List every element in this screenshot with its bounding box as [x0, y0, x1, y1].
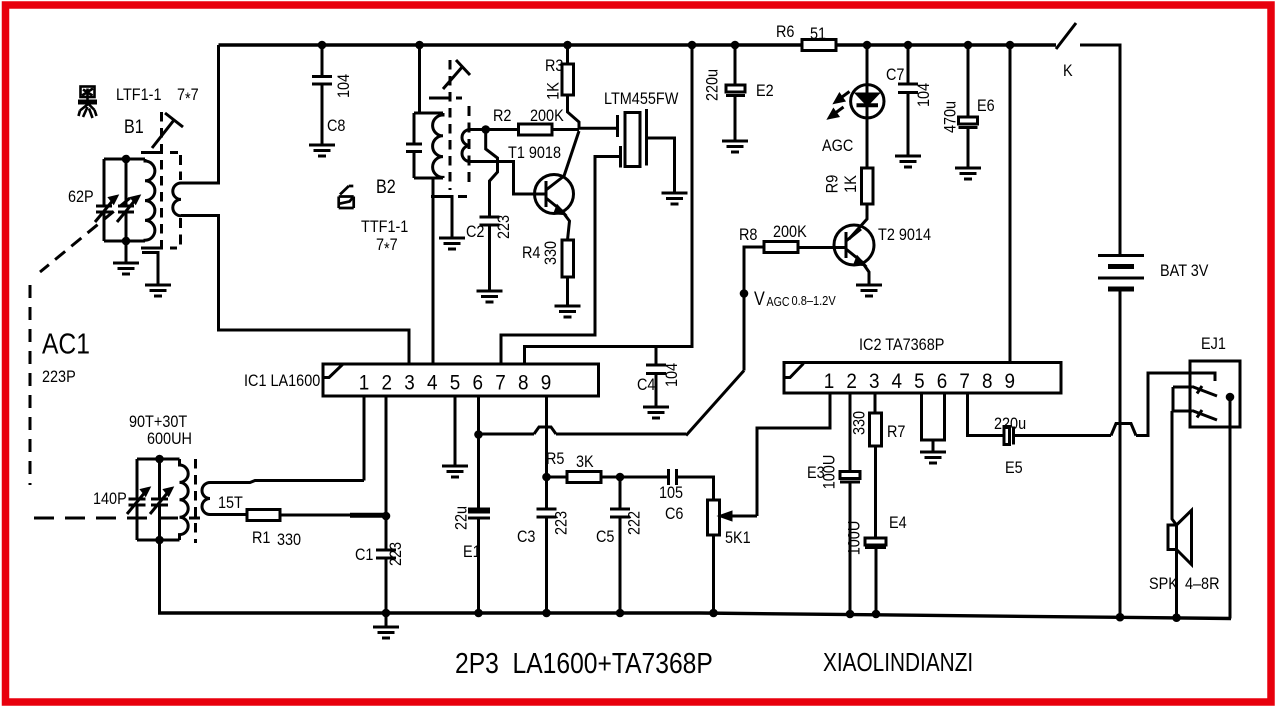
svg-text:5: 5 [450, 372, 461, 395]
node B1 tank top [122, 155, 131, 164]
svg-text:AC1: AC1 [42, 328, 90, 360]
ground C2 [477, 291, 503, 302]
wire B2 bottom to IC1 pin4 [432, 178, 435, 364]
transistor T2 9014 [834, 225, 874, 265]
svg-text:C4: C4 [637, 376, 656, 394]
svg-text:223: 223 [552, 511, 570, 535]
svg-text:200K: 200K [773, 223, 807, 241]
ground T2 emitter [856, 285, 882, 296]
svg-text:9: 9 [1005, 370, 1016, 393]
svg-text:C6: C6 [665, 505, 684, 523]
node B1 tank bottom [122, 237, 131, 246]
inductor B2 primary [433, 113, 443, 178]
wire B1 tank top [104, 158, 145, 161]
svg-text:7*7: 7*7 [177, 86, 199, 108]
svg-text:1: 1 [359, 372, 370, 395]
wire IC1 pin9 down [545, 396, 548, 477]
capacitor E2 220u [734, 45, 737, 85]
svg-text:470u: 470u [941, 101, 959, 133]
node 140P tank top [155, 455, 164, 464]
node E4 rail [872, 610, 881, 619]
svg-text:T1 9018: T1 9018 [508, 144, 561, 162]
svg-text:AGC: AGC [822, 137, 853, 155]
node rail/LED [863, 41, 872, 50]
node C3 rail [542, 609, 551, 618]
svg-text:223P: 223P [42, 368, 76, 386]
svg-text:22u: 22u [452, 506, 470, 530]
node rail/E6 [964, 41, 973, 50]
svg-text:2: 2 [381, 372, 392, 395]
wire R3 bottom to collector node [568, 95, 580, 130]
wire B1 secondary top to rail [181, 45, 219, 183]
svg-text:C3: C3 [517, 528, 536, 546]
svg-text:E1: E1 [463, 543, 481, 561]
wire E5 to jack with hop [1014, 373, 1216, 436]
svg-text:B2: B2 [376, 176, 396, 198]
svg-text:AGC: AGC [767, 295, 790, 309]
wire tank bottom to rail [158, 540, 161, 613]
svg-text:0.8–1.2V: 0.8–1.2V [792, 293, 836, 308]
node B2/R2/C2 [481, 125, 490, 134]
5K1 wiper arrow [729, 515, 757, 518]
wire node zigzag down to C2 [486, 130, 498, 218]
battery BAT 3V [1098, 254, 1144, 257]
capacitor C4 104 [646, 347, 666, 408]
ceramic filter LTM455FW [616, 115, 619, 137]
EJ1 lower contact [1192, 410, 1217, 420]
ground E6 [955, 168, 981, 179]
svg-text:R1: R1 [252, 529, 270, 547]
svg-text:B1: B1 [124, 116, 144, 138]
resistor R7 330 [870, 413, 882, 446]
ground B2 shield [439, 238, 465, 249]
wire wiper to IC2 pin1 [757, 393, 830, 516]
svg-text:4–8R: 4–8R [1185, 575, 1220, 593]
LED AGC indicator [866, 45, 869, 94]
svg-text:200K: 200K [530, 107, 564, 125]
capacitor E5 220u [1004, 427, 1010, 445]
wire R8 left to VAGC node [744, 247, 764, 371]
svg-text:1K: 1K [842, 175, 860, 193]
IC U2 TA7368P body [784, 363, 1061, 394]
svg-text:104: 104 [663, 363, 681, 387]
svg-text:5: 5 [914, 370, 925, 393]
wire T1 emitter to R4 [562, 211, 570, 240]
AC1 dashed boundary horizontal [34, 517, 200, 520]
svg-text:15T: 15T [218, 494, 243, 512]
ground B1 tank [113, 263, 139, 274]
B2 shield ground lead [433, 197, 452, 239]
svg-text:C1: C1 [355, 546, 373, 564]
capacitor C6 105 [620, 469, 714, 500]
wire B2 secondary top to R2 node [470, 128, 519, 131]
ground R4 [555, 306, 581, 317]
capacitor E4 100U [865, 538, 886, 545]
svg-text:IC1 LA1600: IC1 LA1600 [244, 372, 320, 390]
wire LTM output to IC1 pin7 [501, 157, 621, 365]
svg-text:R2: R2 [493, 107, 511, 125]
svg-text:R3: R3 [545, 57, 564, 75]
wire IC2 pin2 down [849, 393, 852, 472]
svg-text:62P: 62P [68, 188, 94, 206]
wire 15T bottom to R1 [210, 513, 247, 516]
capacitor E1 22u [477, 435, 480, 509]
IC1 pin numbers [359, 372, 552, 395]
svg-text:C7: C7 [886, 66, 904, 84]
wire speaker to rail [1175, 550, 1178, 618]
svg-text:2: 2 [846, 370, 857, 393]
svg-text:TTF1-1: TTF1-1 [361, 218, 408, 236]
wire B2 tank top [414, 112, 443, 115]
wire B2 secondary bottom to T1 base [470, 162, 546, 195]
wire VAGC diagonal to AGC line [686, 371, 744, 436]
B2 shield dashed [429, 97, 462, 100]
svg-text:E2: E2 [756, 82, 774, 100]
inductor 15T [202, 483, 210, 515]
wire LTM ground electrode [647, 138, 675, 193]
svg-text:1K: 1K [544, 82, 562, 100]
ground C8 [309, 145, 335, 156]
svg-text:R9: R9 [823, 175, 841, 194]
node C5 rail [616, 609, 625, 618]
capacitor C8 [312, 45, 332, 145]
svg-text:E6: E6 [977, 97, 995, 115]
svg-text:4: 4 [427, 372, 438, 395]
svg-text:223: 223 [387, 542, 405, 566]
IC1 pin1 tab mark [323, 365, 343, 378]
wire B1 secondary bottom to IC1 pin3 [181, 216, 409, 365]
resistor R4 330 [562, 240, 574, 277]
node VAGC [740, 289, 749, 298]
svg-text:7*7: 7*7 [376, 236, 398, 258]
svg-text:E5: E5 [1005, 459, 1023, 477]
node rail/C7 [904, 41, 913, 50]
svg-text:8: 8 [518, 372, 529, 395]
capacitor C7 104 [898, 45, 918, 156]
svg-text:C2: C2 [466, 223, 484, 241]
wire R7 to E4 [874, 446, 877, 538]
svg-text:7: 7 [959, 370, 970, 393]
node battery rail [1116, 613, 1125, 622]
svg-text:600UH: 600UH [147, 430, 192, 448]
variable capacitor 62P section b [118, 159, 134, 241]
resistor R8 200K [764, 242, 798, 253]
switch K [1056, 23, 1076, 49]
wire T2 emitter to ground [862, 262, 869, 285]
ground IC1 pin5 [442, 466, 468, 477]
svg-text:222: 222 [625, 511, 643, 535]
svg-text:E4: E4 [889, 514, 907, 532]
inductor B1 primary [145, 159, 155, 241]
ground C4 [643, 407, 669, 418]
svg-text:3: 3 [404, 372, 415, 395]
wire IC1 pin2 down to C1 node [385, 396, 388, 516]
earphone jack EJ1 body [1190, 361, 1240, 427]
node pin9/R5/C3 [542, 473, 551, 482]
variable capacitor 62P section a [96, 159, 112, 241]
wire rail to IC2 pin9 [1009, 45, 1012, 363]
resistor R5 3K [547, 476, 568, 479]
svg-text:2P3 LA1600+TA7368P: 2P3 LA1600+TA7368P [455, 647, 713, 679]
svg-text:XIAOLINDIANZI: XIAOLINDIANZI [823, 648, 973, 677]
svg-text:R7: R7 [887, 423, 905, 441]
potentiometer 5K1 [708, 500, 720, 535]
AC1 dashed boundary diagonal [40, 198, 130, 272]
svg-text:100U: 100U [845, 521, 863, 556]
B1 shield dashed [141, 151, 178, 154]
svg-text:220u: 220u [994, 415, 1026, 433]
ground C7 [895, 156, 921, 167]
svg-text:3: 3 [869, 370, 880, 393]
capacitor C3 223 [537, 477, 557, 613]
svg-text:6: 6 [937, 370, 948, 393]
wire IC1 pin8 rail drop [525, 45, 693, 364]
svg-text:R4: R4 [522, 244, 541, 262]
wire 140P tank bottom [137, 539, 180, 542]
svg-text:IC2 TA7368P: IC2 TA7368P [859, 336, 944, 354]
svg-text:90T+30T: 90T+30T [129, 413, 188, 431]
node E3 rail [846, 610, 855, 619]
LED arrows [840, 92, 850, 99]
svg-text:104: 104 [915, 83, 933, 107]
600UH core dashed [194, 459, 197, 543]
node C1 rail [382, 609, 391, 618]
svg-text:220u: 220u [703, 69, 721, 101]
svg-text:R8: R8 [739, 226, 758, 244]
B2 tuning slug arrow [443, 60, 470, 89]
node EJ1 sleeve [1226, 393, 1235, 402]
capacitor B2 tank [406, 113, 422, 178]
svg-text:330: 330 [542, 241, 560, 265]
svg-text:9: 9 [541, 372, 552, 395]
IC2 pin1 tab mark [784, 364, 804, 378]
node 140P tank bottom [155, 536, 164, 545]
svg-text:C5: C5 [596, 528, 615, 546]
wire top power rail left [219, 43, 803, 46]
B1 shield ground lead [142, 253, 158, 286]
svg-text:3K: 3K [576, 453, 594, 471]
wire B1 tank to ground [125, 241, 128, 263]
wire 140P tank top [137, 458, 180, 461]
wire IC1 pin5 to ground [454, 396, 457, 466]
node rail/IC1 pin8 [688, 41, 697, 50]
svg-text:1: 1 [824, 370, 835, 393]
svg-text:223: 223 [495, 215, 513, 239]
speaker SPK 4-8R [1168, 525, 1177, 550]
capacitor C2 223 [480, 217, 500, 291]
wire R1 to C1 node [280, 514, 350, 517]
wire jack to speaker [1172, 411, 1177, 525]
svg-text:SPK: SPK [1149, 575, 1178, 593]
svg-text:R6: R6 [776, 23, 795, 41]
wire node to LTM input [579, 127, 618, 130]
B1 core dashed [160, 112, 163, 250]
ground E2 [722, 141, 748, 152]
capacitor C1 223 [376, 516, 396, 613]
resistor R1 330 [247, 510, 280, 521]
resistor R9 1K [862, 168, 874, 204]
small character glyph near B2 [339, 186, 354, 208]
transistor T1 9018 [535, 175, 574, 214]
wire top rail right of R6 [836, 43, 1056, 46]
svg-text:LTF1-1: LTF1-1 [116, 86, 161, 104]
wire R2 right to node [552, 128, 579, 131]
wire R9 to T2 collector [849, 204, 867, 239]
EJ1 upper contact [1192, 386, 1217, 396]
node pin6/E1/AGC [474, 430, 483, 439]
wire B1 tank bottom [104, 240, 145, 243]
wire node to T1 collector [564, 131, 579, 176]
svg-text:51: 51 [810, 25, 826, 43]
capacitor C5 222 [610, 477, 630, 613]
ground B1 shield [145, 285, 171, 296]
svg-text:BAT 3V: BAT 3V [1160, 262, 1209, 280]
wire bottom ground rail [158, 613, 1231, 619]
ground LTM [662, 193, 688, 204]
svg-text:100U: 100U [820, 455, 838, 490]
antenna glyph (stylized character) [78, 87, 97, 119]
AC1 dashed boundary vertical [29, 285, 32, 485]
wire T2 base lead [798, 246, 846, 249]
svg-text:R5: R5 [546, 450, 565, 468]
node R1/C1/pin2 [382, 512, 391, 521]
node R5/C5/C6 [616, 473, 625, 482]
wire IC2 pin7 down [968, 393, 1005, 436]
ground IC2 pins5,6 [920, 452, 946, 463]
wire IC2 pin3 down [874, 393, 877, 413]
wire IC2 pins5,6 to ground [922, 393, 945, 452]
resistor R3 1K [566, 45, 569, 64]
variable capacitor 140P section a [129, 459, 146, 540]
node rail/R3 [563, 41, 572, 50]
wire EJ1 sleeve to ground rail [1229, 397, 1232, 619]
svg-text:330: 330 [850, 411, 868, 435]
wire 15T top to IC1 pin1 [210, 481, 364, 483]
wire AGC line with hop [479, 427, 687, 434]
B1 tuning slug arrow [152, 113, 183, 148]
inductor B2 secondary [462, 130, 470, 162]
B2 core dashed [449, 60, 452, 190]
svg-text:C8: C8 [327, 117, 346, 135]
wire B2 feed [418, 45, 421, 113]
EJ1 switch contact bar [1173, 387, 1192, 411]
node rail/IC2 pin9 [1006, 41, 1015, 50]
IC U1 LA1600 body [323, 364, 599, 396]
resistor R2 200K [519, 124, 553, 135]
variable capacitor 140P section b [151, 459, 168, 540]
svg-text:6: 6 [472, 372, 483, 395]
svg-text:330: 330 [277, 531, 301, 549]
node rail/B2 feed [415, 41, 424, 50]
wire battery negative down [1119, 291, 1122, 618]
svg-text:104: 104 [335, 74, 353, 98]
svg-text:7: 7 [495, 372, 506, 395]
wire IC1 pin6 down [477, 396, 480, 435]
svg-text:105: 105 [659, 484, 683, 502]
node E1 rail [474, 609, 483, 618]
resistor R6 [802, 40, 836, 51]
node rail/E2 [731, 41, 740, 50]
wire rail after switch to battery [1080, 45, 1120, 255]
capacitor E6 470u [967, 45, 970, 117]
node rail/C8 [318, 41, 327, 50]
svg-text:LTM455FW: LTM455FW [604, 90, 678, 108]
svg-text:4: 4 [892, 370, 903, 393]
node speaker rail [1172, 613, 1181, 622]
capacitor E3 100U [840, 472, 860, 479]
wire B2 tank bottom [414, 177, 443, 180]
node 5K1 rail [709, 609, 718, 618]
inductor B1 secondary [173, 183, 181, 216]
wire IC1 pin1 down [363, 396, 366, 481]
svg-text:5K1: 5K1 [725, 529, 751, 547]
wire R4 to ground [566, 277, 569, 306]
inductor 90T+30T 600UH [180, 459, 189, 540]
svg-text:EJ1: EJ1 [1201, 335, 1226, 353]
svg-text:V: V [754, 288, 765, 310]
IC2 pin numbers [824, 370, 1015, 393]
svg-text:T2 9014: T2 9014 [878, 226, 931, 244]
ground main rail [385, 613, 388, 627]
svg-text:8: 8 [982, 370, 993, 393]
svg-text:140P: 140P [93, 490, 127, 508]
svg-text:K: K [1063, 62, 1073, 80]
